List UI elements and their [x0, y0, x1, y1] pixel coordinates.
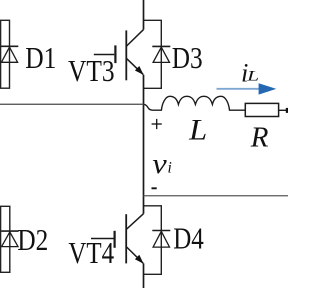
svg-text:i: i [168, 160, 172, 177]
svg-text:D1: D1 [25, 41, 56, 75]
svg-text:VT3: VT3 [68, 54, 115, 88]
svg-text:R: R [250, 121, 269, 153]
svg-text:D4: D4 [173, 221, 204, 255]
svg-text:L: L [188, 112, 207, 146]
svg-text:VT4: VT4 [68, 236, 114, 270]
svg-text:D3: D3 [172, 41, 203, 75]
svg-text:v: v [152, 149, 167, 180]
svg-text:L: L [246, 69, 259, 85]
svg-text:D2: D2 [17, 223, 48, 257]
